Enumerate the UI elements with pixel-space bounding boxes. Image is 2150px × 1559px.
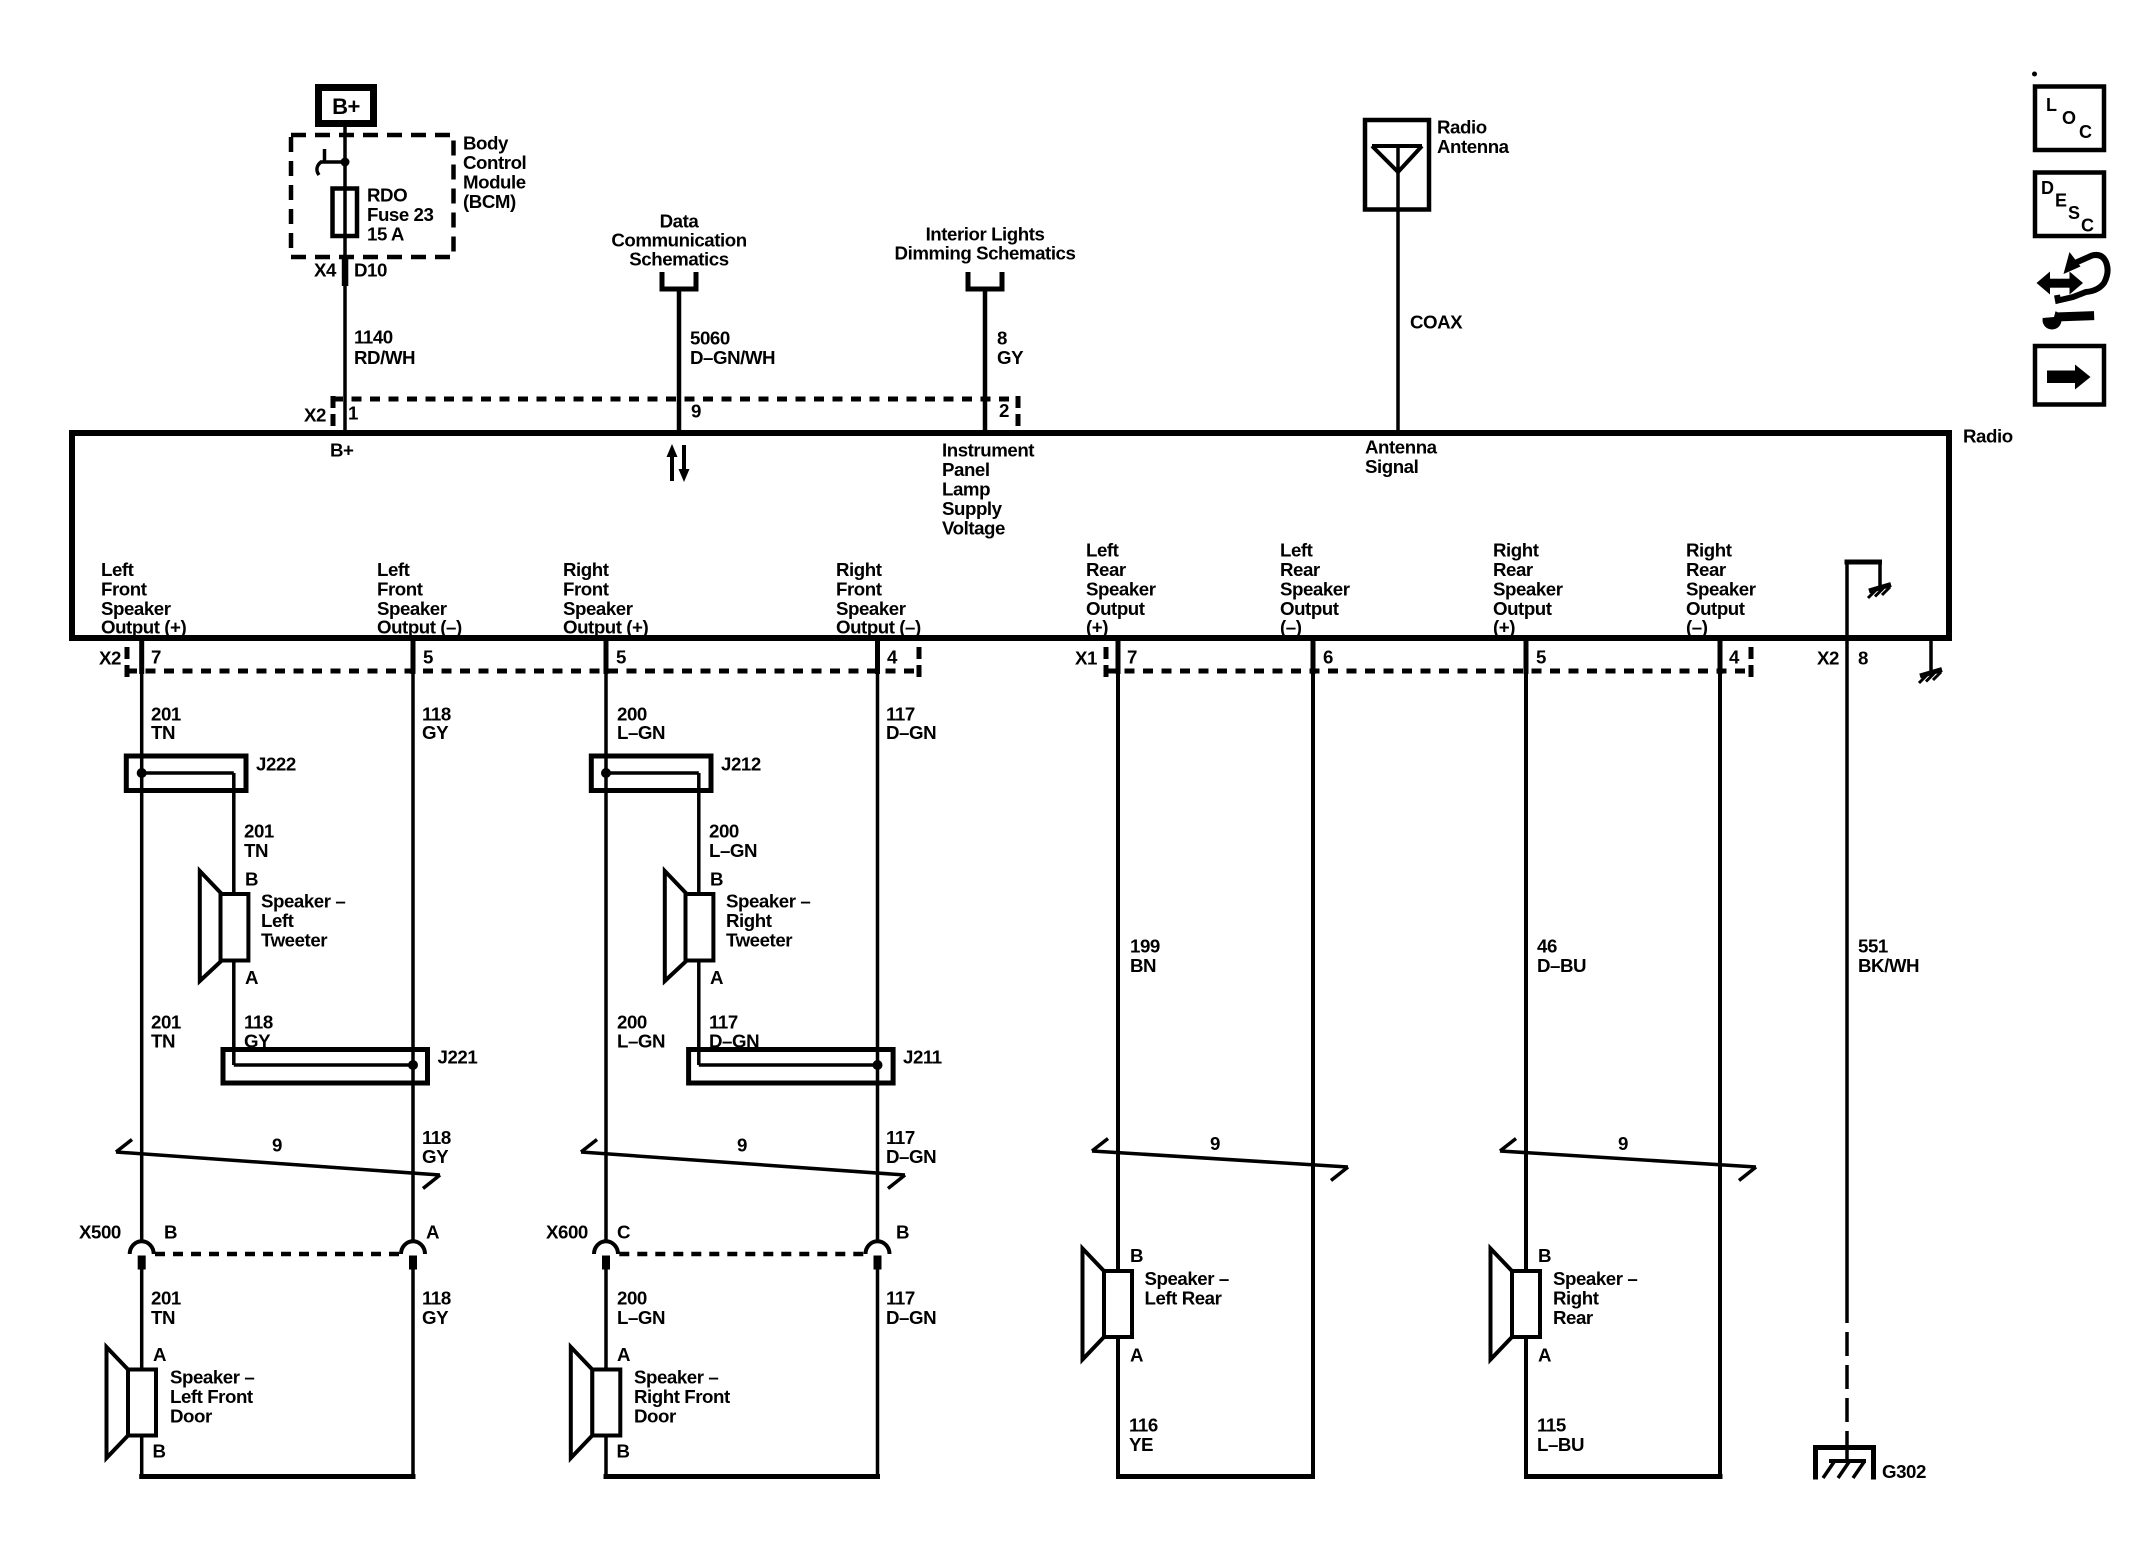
Left Front Speaker Output (-) label: [377, 559, 462, 638]
svg-text:9: 9: [1618, 1133, 1628, 1154]
svg-text:Tweeter: Tweeter: [261, 930, 327, 951]
svg-text:D10: D10: [354, 260, 387, 281]
svg-text:Rear: Rear: [1553, 1307, 1593, 1328]
svg-text:Left: Left: [377, 559, 410, 580]
svg-text:Left: Left: [101, 559, 134, 580]
wire 117 D-GN (right front -): [876, 671, 880, 1242]
switch hook symbol in BCM: [317, 149, 350, 175]
radio internal ground jog wire: [1845, 562, 1883, 638]
Right Rear Speaker Output (+) label: [1493, 540, 1563, 638]
Speaker - Right Front Door label: [634, 1367, 730, 1427]
svg-text:J222: J222: [256, 754, 296, 775]
svg-text:TN: TN: [151, 1031, 175, 1052]
connector X2 left bracket: [125, 647, 130, 679]
svg-text:5: 5: [423, 647, 433, 668]
svg-text:Antenna: Antenna: [1365, 437, 1438, 458]
wire label 5060 D-GN/WH: [690, 328, 775, 369]
svg-text:Dimming Schematics: Dimming Schematics: [895, 243, 1076, 264]
connector X500: [130, 1241, 425, 1269]
svg-text:Right: Right: [836, 559, 882, 580]
svg-text:201: 201: [151, 1012, 181, 1033]
Right Front Speaker Output (-) label: [836, 559, 921, 638]
svg-text:Left Rear: Left Rear: [1145, 1288, 1222, 1309]
wire 201 TN (left front +): [140, 671, 144, 1242]
svg-text:Output (–): Output (–): [377, 617, 462, 638]
fuse RDO Fuse 23 15 A: [333, 189, 358, 237]
splice J212: [591, 756, 711, 791]
svg-text:200: 200: [617, 1012, 647, 1033]
svg-text:Speaker –: Speaker –: [261, 891, 345, 912]
svg-text:9: 9: [737, 1135, 747, 1156]
svg-text:8: 8: [1858, 648, 1868, 669]
Interior Lights Dimming Schematics label: [895, 224, 1076, 264]
wire label 8 GY: [997, 328, 1024, 369]
svg-text:117: 117: [886, 1127, 915, 1148]
wire 8 GY: [983, 289, 988, 433]
splice J221: [223, 1050, 428, 1084]
chassis ground symbol inside radio: [1868, 585, 1891, 599]
svg-text:D–GN: D–GN: [886, 1307, 936, 1328]
svg-text:A: A: [710, 967, 723, 988]
off-schematic bracket (data communication): [662, 272, 696, 289]
wire left rear return (pin 6): [1311, 671, 1315, 1478]
svg-text:YE: YE: [1129, 1434, 1153, 1455]
svg-text:B: B: [1130, 1245, 1143, 1266]
svg-text:Front: Front: [836, 579, 882, 600]
svg-text:551: 551: [1858, 936, 1888, 957]
off-schematic bracket (interior lights): [968, 272, 1002, 289]
svg-text:2: 2: [999, 400, 1009, 421]
wire 200 L-GN (right front +): [604, 671, 608, 1242]
svg-text:Interior Lights: Interior Lights: [926, 224, 1045, 245]
svg-text:201: 201: [151, 1288, 181, 1309]
svg-text:L–GN: L–GN: [617, 722, 665, 743]
svg-text:Radio: Radio: [1437, 117, 1487, 138]
svg-text:X1: X1: [1075, 648, 1097, 669]
connector X2 (radio top) dashed line: [333, 397, 1018, 402]
Speaker - Right Rear label: [1553, 1268, 1637, 1328]
svg-text:O: O: [2062, 108, 2076, 128]
Left Rear Speaker Output (-) label: [1280, 540, 1350, 638]
svg-text:Body: Body: [463, 133, 509, 154]
DESC icon box: [2035, 173, 2104, 237]
svg-text:Speaker: Speaker: [1280, 579, 1350, 600]
Instrument Panel Lamp Supply Voltage label: [942, 440, 1034, 539]
connector X1 right bracket: [1749, 647, 1754, 679]
svg-text:5060: 5060: [690, 328, 730, 349]
svg-text:Right: Right: [1493, 540, 1539, 561]
svg-text:Schematics: Schematics: [629, 249, 728, 270]
wire label 200 L-GN (lower): [617, 1288, 665, 1329]
connector X600: [594, 1241, 890, 1269]
svg-text:G302: G302: [1882, 1461, 1926, 1482]
wire label 1140 RD/WH: [354, 327, 415, 369]
wire left front return loop: [139, 1474, 415, 1479]
svg-text:COAX: COAX: [1410, 312, 1463, 333]
harness 9 crossing (left front pair): [116, 1140, 440, 1189]
wire label 201 TN (jog): [244, 821, 274, 862]
wire label 118 GY (below J221): [422, 1127, 451, 1167]
Speaker - Right Tweeter label: [726, 891, 810, 951]
wire 551 BK/WH (radio ground): [1845, 638, 1849, 1299]
svg-text:Right Front: Right Front: [634, 1386, 730, 1407]
svg-text:Front: Front: [101, 579, 147, 600]
service diagnostic icon (arrows and wrench): [2037, 252, 2108, 330]
svg-text:Instrument: Instrument: [942, 440, 1034, 461]
svg-text:Speaker –: Speaker –: [1553, 1268, 1637, 1289]
svg-text:Voltage: Voltage: [942, 518, 1005, 539]
svg-text:X2: X2: [99, 648, 121, 669]
svg-text:J211: J211: [903, 1047, 942, 1068]
svg-text:Rear: Rear: [1280, 559, 1320, 580]
ground G302: [1813, 1445, 1876, 1480]
Left Front Speaker Output (+) label: [101, 559, 187, 638]
svg-text:(BCM): (BCM): [463, 191, 516, 212]
svg-text:Left Front: Left Front: [170, 1386, 253, 1407]
wire label 117 D-GN (lower): [886, 1288, 936, 1329]
wire 116 YE (left rear A): [1116, 1337, 1120, 1478]
connector X1 left bracket: [1104, 647, 1109, 679]
svg-text:Radio: Radio: [1963, 426, 2013, 447]
wire label 200 L-GN (jog): [709, 821, 757, 862]
BCM label: [463, 133, 526, 213]
fuse value label: [367, 185, 434, 245]
svg-text:D–BU: D–BU: [1537, 955, 1586, 976]
svg-text:C: C: [2081, 216, 2094, 236]
svg-text:9: 9: [691, 401, 701, 422]
svg-text:200: 200: [709, 821, 739, 842]
speaker right tweeter: [665, 871, 714, 981]
svg-text:Output (+): Output (+): [563, 617, 649, 638]
svg-text:S: S: [2068, 203, 2080, 223]
svg-text:A: A: [1538, 1345, 1551, 1366]
svg-text:D–GN: D–GN: [886, 1146, 936, 1167]
svg-text:4: 4: [1729, 647, 1740, 668]
wire 200 L-GN lower: [604, 1270, 608, 1370]
svg-text:Output (+): Output (+): [101, 617, 187, 638]
antenna symbol: [1372, 146, 1422, 172]
wire label 201 TN: [151, 704, 181, 744]
Speaker - Left Tweeter label: [261, 891, 345, 951]
wire label 201 TN (lower): [151, 1288, 181, 1329]
svg-text:Rear: Rear: [1686, 559, 1726, 580]
svg-text:L–GN: L–GN: [617, 1307, 665, 1328]
svg-text:Right: Right: [1686, 540, 1732, 561]
svg-text:Door: Door: [170, 1406, 212, 1427]
splice J222: [126, 756, 246, 791]
svg-text:1140: 1140: [354, 327, 393, 348]
svg-text:TN: TN: [151, 1307, 175, 1328]
speaker left tweeter: [200, 871, 249, 981]
wire 118 GY lower: [411, 1270, 415, 1479]
wire right rear return (pin 4): [1718, 671, 1722, 1478]
wire right front door B to loop: [604, 1436, 608, 1479]
data up/down arrows inside radio: [667, 444, 690, 482]
svg-text:(+): (+): [1493, 617, 1515, 638]
wire right rear return loop: [1524, 1474, 1723, 1479]
wire label 200 L-GN (mid): [617, 1012, 665, 1052]
svg-text:Right: Right: [726, 910, 772, 931]
svg-text:(–): (–): [1686, 617, 1708, 638]
svg-text:B: B: [896, 1222, 909, 1243]
wire label 118 GY (below tweeter): [244, 1012, 273, 1052]
speaker right front door: [571, 1347, 621, 1458]
go-to icon box: [2035, 346, 2104, 405]
svg-text:A: A: [426, 1222, 439, 1243]
svg-text:B+: B+: [330, 440, 354, 461]
svg-text:Fuse 23: Fuse 23: [367, 204, 434, 225]
svg-text:C: C: [2079, 122, 2092, 142]
LOC icon box: [2035, 87, 2104, 151]
Speaker - Left Front Door label: [170, 1367, 254, 1427]
wire label 117 D-GN (below tweeter): [709, 1012, 759, 1052]
Radio Antenna label: [1437, 117, 1510, 158]
svg-text:Door: Door: [634, 1406, 676, 1427]
wire 5060 D-GN/WH: [677, 289, 682, 433]
svg-text:5: 5: [1536, 647, 1546, 668]
wire 117 D-GN lower: [876, 1270, 880, 1479]
Right Front Speaker Output (+) label: [563, 559, 649, 638]
svg-text:9: 9: [272, 1135, 282, 1156]
svg-text:9: 9: [1210, 1133, 1220, 1154]
svg-text:B: B: [245, 869, 258, 890]
svg-text:X2: X2: [304, 405, 326, 426]
svg-text:B: B: [153, 1441, 166, 1462]
svg-text:Data: Data: [660, 211, 700, 232]
svg-text:Communication: Communication: [611, 230, 746, 251]
svg-text:D: D: [2041, 178, 2054, 198]
svg-text:L–GN: L–GN: [617, 1031, 665, 1052]
svg-text:A: A: [245, 967, 258, 988]
radio case ground stub: [1929, 638, 1933, 671]
Antenna Signal label: [1365, 437, 1438, 478]
wire label 118 GY: [422, 704, 451, 744]
svg-text:Speaker –: Speaker –: [726, 891, 810, 912]
svg-text:C: C: [617, 1222, 630, 1243]
svg-text:A: A: [617, 1344, 630, 1365]
svg-text:GY: GY: [422, 1146, 449, 1167]
svg-text:Front: Front: [377, 579, 423, 600]
svg-text:GY: GY: [422, 1307, 449, 1328]
svg-text:Rear: Rear: [1086, 559, 1126, 580]
wire label 201 TN (mid): [151, 1012, 181, 1052]
svg-text:Left: Left: [1280, 540, 1313, 561]
svg-text:D–GN/WH: D–GN/WH: [690, 347, 775, 368]
svg-text:(–): (–): [1280, 617, 1302, 638]
svg-text:Speaker: Speaker: [1493, 579, 1563, 600]
wire 201 TN lower: [140, 1270, 144, 1370]
svg-text:117: 117: [709, 1012, 738, 1033]
svg-text:X500: X500: [79, 1222, 121, 1243]
svg-text:200: 200: [617, 1288, 647, 1309]
radio pin stubs: [142, 636, 1720, 675]
connector X4 pin D10 bar: [342, 259, 349, 286]
svg-text:118: 118: [244, 1012, 273, 1033]
harness 9 crossing (right front pair): [581, 1140, 905, 1189]
svg-text:117: 117: [886, 1288, 915, 1309]
svg-text:Speaker –: Speaker –: [1145, 1268, 1229, 1289]
stray dot artifact: [2032, 72, 2037, 77]
wire left rear return loop: [1116, 1474, 1315, 1479]
svg-text:B: B: [1538, 1245, 1551, 1266]
svg-text:B: B: [617, 1441, 630, 1462]
svg-text:Panel: Panel: [942, 459, 990, 480]
wire right front return loop: [604, 1474, 881, 1479]
svg-text:Control: Control: [463, 152, 526, 173]
svg-text:Module: Module: [463, 172, 526, 193]
svg-text:L: L: [2046, 95, 2057, 115]
harness 9 crossing (right rear pair): [1500, 1139, 1756, 1181]
svg-text:116: 116: [1129, 1415, 1158, 1436]
speaker left rear: [1083, 1249, 1133, 1360]
svg-text:Lamp: Lamp: [942, 479, 990, 500]
wire label 117 D-GN: [886, 704, 936, 744]
svg-text:E: E: [2055, 191, 2067, 211]
svg-text:A: A: [1130, 1345, 1143, 1366]
svg-text:Right: Right: [1553, 1288, 1599, 1309]
svg-text:118: 118: [422, 1127, 451, 1148]
COAX wire: [1396, 146, 1400, 433]
svg-text:Left: Left: [1086, 540, 1119, 561]
svg-text:(+): (+): [1086, 617, 1108, 638]
svg-text:6: 6: [1323, 647, 1333, 668]
Right Rear Speaker Output (-) label: [1686, 540, 1756, 638]
wire 199 BN (left rear +): [1116, 671, 1120, 1271]
wire label 46 D-BU: [1537, 936, 1586, 977]
svg-text:X4: X4: [314, 260, 337, 281]
wire 115 L-BU (right rear A): [1524, 1337, 1528, 1478]
wire label 117 D-GN (below J211): [886, 1127, 936, 1167]
Speaker - Left Rear label: [1145, 1268, 1229, 1309]
splice J211: [689, 1050, 894, 1084]
speaker right rear: [1491, 1249, 1541, 1360]
svg-text:GY: GY: [997, 347, 1024, 368]
wire B+ feed (vertical through BCM): [343, 127, 347, 433]
svg-text:Supply: Supply: [942, 498, 1003, 519]
svg-text:Rear: Rear: [1493, 559, 1533, 580]
wire 118 GY from left tweeter A: [232, 961, 236, 1066]
svg-text:5: 5: [616, 647, 626, 668]
svg-text:118: 118: [422, 1288, 451, 1309]
wire jog 201 TN to left tweeter: [232, 773, 236, 895]
svg-text:D–GN: D–GN: [886, 722, 936, 743]
svg-text:GY: GY: [422, 722, 449, 743]
wire label 200 L-GN: [617, 704, 665, 744]
svg-text:199: 199: [1130, 936, 1160, 957]
svg-text:Left: Left: [261, 910, 294, 931]
svg-text:Output (–): Output (–): [836, 617, 921, 638]
wire 118 GY (left front -): [411, 671, 415, 1242]
svg-text:Antenna: Antenna: [1437, 136, 1510, 157]
svg-text:Right: Right: [563, 559, 609, 580]
wire label 199 BN: [1130, 936, 1160, 977]
Radio box: [72, 433, 1949, 638]
svg-text:RDO: RDO: [367, 185, 407, 206]
svg-text:RD/WH: RD/WH: [354, 347, 415, 368]
svg-text:X2: X2: [1817, 648, 1839, 669]
svg-text:B: B: [164, 1222, 177, 1243]
svg-text:Speaker: Speaker: [1086, 579, 1156, 600]
svg-text:TN: TN: [151, 722, 175, 743]
svg-text:8: 8: [997, 328, 1007, 349]
svg-text:L–GN: L–GN: [709, 840, 757, 861]
svg-text:Speaker –: Speaker –: [634, 1367, 718, 1388]
svg-text:4: 4: [887, 647, 898, 668]
wire label 118 GY (lower): [422, 1288, 451, 1329]
svg-text:Signal: Signal: [1365, 456, 1418, 477]
wire 551 dashed segment: [1845, 1299, 1849, 1448]
chassis ground symbol below radio: [1919, 670, 1942, 684]
svg-text:J212: J212: [721, 754, 761, 775]
svg-text:B+: B+: [332, 94, 360, 119]
connector X2 left bracket: [331, 396, 336, 428]
svg-text:BK/WH: BK/WH: [1858, 955, 1919, 976]
wire label 116 YE: [1129, 1415, 1158, 1456]
connector X2 (front speakers) dashed line: [127, 669, 919, 674]
svg-text:BN: BN: [1130, 955, 1156, 976]
speaker left front door: [107, 1347, 157, 1458]
svg-text:B: B: [710, 869, 723, 890]
wire 46 D-BU (right rear +): [1524, 671, 1528, 1271]
svg-text:A: A: [153, 1344, 166, 1365]
wire label 551 BK/WH: [1858, 936, 1919, 977]
svg-text:TN: TN: [244, 840, 268, 861]
svg-text:15 A: 15 A: [367, 224, 404, 245]
svg-text:1: 1: [348, 403, 358, 424]
svg-text:Tweeter: Tweeter: [726, 930, 792, 951]
svg-text:Front: Front: [563, 579, 609, 600]
wire 117 D-GN from right tweeter A: [697, 961, 701, 1066]
svg-text:Speaker: Speaker: [1686, 579, 1756, 600]
B+ power symbol: [319, 88, 374, 124]
Data Communication Schematics label: [611, 211, 746, 270]
Left Rear Speaker Output (+) label: [1086, 540, 1156, 638]
connector X2 right bracket: [1016, 396, 1021, 428]
wire jog 200 L-GN to right tweeter: [697, 773, 701, 895]
connector X1 (rear speakers) dashed line: [1106, 669, 1751, 674]
svg-text:L–BU: L–BU: [1537, 1434, 1584, 1455]
wire label 115 L-BU: [1537, 1415, 1584, 1456]
svg-text:46: 46: [1537, 936, 1557, 957]
svg-text:7: 7: [1127, 647, 1137, 668]
svg-text:J221: J221: [438, 1047, 478, 1068]
connector X2 right bracket: [917, 647, 922, 679]
Body Control Module (BCM) dashed box: [291, 135, 454, 257]
svg-text:115: 115: [1537, 1415, 1566, 1436]
svg-text:X600: X600: [546, 1222, 588, 1243]
wire left front door B to loop: [140, 1436, 144, 1479]
svg-text:201: 201: [244, 821, 274, 842]
harness 9 crossing (left rear pair): [1092, 1139, 1348, 1181]
svg-text:Speaker –: Speaker –: [170, 1367, 254, 1388]
svg-text:7: 7: [151, 647, 161, 668]
radio antenna box: [1365, 120, 1429, 210]
